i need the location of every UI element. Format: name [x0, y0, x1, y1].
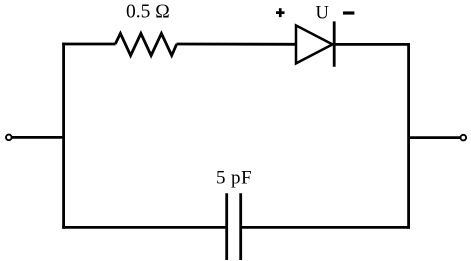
- wire: right terminal lead: [408, 136, 461, 139]
- wire: top right segment: [334, 43, 410, 46]
- capacitor C1 left plate: [225, 193, 228, 260]
- svg-text:5 pF: 5 pF: [216, 168, 252, 189]
- wire: top middle segment: [177, 43, 297, 46]
- resistor R1 0.5 ohm zigzag: [115, 33, 176, 55]
- diode D1 anode triangle: [296, 25, 333, 63]
- wire: right vertical side: [407, 43, 410, 229]
- wire: left vertical side: [62, 43, 65, 229]
- wire: top left segment: [62, 43, 115, 46]
- wire: bottom left segment: [62, 226, 225, 229]
- wire: left terminal lead: [11, 136, 65, 139]
- label + (anode polarity): [276, 8, 285, 17]
- wire: bottom right segment: [242, 226, 410, 229]
- svg-text:0.5 Ω: 0.5 Ω: [126, 2, 170, 23]
- diode D1 cathode bar: [333, 21, 336, 66]
- capacitor C1 right plate: [239, 193, 242, 260]
- label − (cathode polarity): [343, 11, 354, 14]
- terminal: right port: [461, 135, 467, 141]
- terminal: left port: [6, 135, 12, 141]
- svg-text:U: U: [316, 4, 329, 24]
